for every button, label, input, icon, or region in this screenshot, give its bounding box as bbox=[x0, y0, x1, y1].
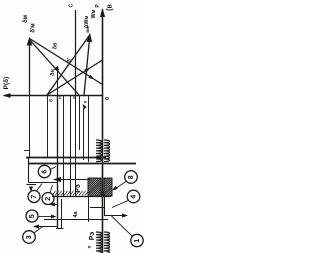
wire: projection line x47 bbox=[47, 95, 49, 157]
leader of part 8 bbox=[114, 182, 126, 190]
svg-text:4: 4 bbox=[130, 195, 137, 199]
arrowhead of part5 leader bbox=[51, 215, 57, 219]
wire: projection line x63 bbox=[63, 95, 65, 196]
circled part number 8 bbox=[125, 171, 138, 184]
leader of part 1 bbox=[111, 216, 132, 237]
svg-text:8: 8 bbox=[128, 175, 135, 179]
leader of part 7 bbox=[37, 184, 43, 192]
svg-text:0: 0 bbox=[105, 97, 111, 100]
coil winding upper right bbox=[104, 140, 110, 162]
circled part number 5 bbox=[26, 210, 38, 222]
svg-text:δ': δ' bbox=[67, 57, 73, 62]
svg-text:Рэ: Рэ bbox=[89, 232, 96, 241]
pole face line H2b bbox=[29, 163, 137, 165]
wire: ordinate line V5 bbox=[57, 67, 59, 95]
hatched pad left of core bbox=[88, 178, 101, 196]
wire: ordinate axis (horizontal line with left arrow) bbox=[4, 95, 103, 97]
leader of part 3 bbox=[34, 227, 43, 234]
arrow A2 head bbox=[50, 203, 56, 207]
force arrow Pe line bbox=[54, 179, 90, 181]
arrowhead of part8 leader bbox=[112, 186, 118, 191]
circled part number 1 bbox=[131, 234, 143, 246]
arrowhead on L1 bbox=[54, 67, 59, 72]
svg-text:δм: δм bbox=[23, 14, 29, 23]
svg-text:Р(δ): Р(δ) bbox=[3, 77, 10, 90]
down arrow below foot bbox=[29, 187, 33, 193]
svg-text:вм: вм bbox=[86, 26, 91, 33]
curve L3: steep line under T2 arrow bbox=[84, 35, 90, 96]
svg-text:δв: δв bbox=[52, 42, 58, 49]
svg-text:о: о bbox=[87, 245, 92, 248]
svg-text:5: 5 bbox=[29, 214, 36, 218]
leader of part 6 bbox=[50, 167, 57, 171]
arrowhead right on y215 bbox=[122, 213, 128, 217]
curve L1: ray from V2 tip to axis bbox=[30, 40, 80, 96]
arrowhead of V2 bbox=[27, 37, 33, 46]
svg-text:2: 2 bbox=[45, 197, 52, 201]
svg-text:б: б bbox=[48, 99, 54, 102]
wire: V3 continuation below axis bbox=[75, 95, 77, 196]
svg-text:(в: (в bbox=[106, 3, 113, 10]
curve L4: line from axis point to T2 bbox=[47, 35, 90, 96]
wire y207 bbox=[90, 207, 104, 209]
wire: projection line x83 bbox=[83, 108, 85, 160]
svg-text:δ'м: δ'м bbox=[31, 23, 37, 33]
coil winding upper left bbox=[96, 140, 102, 162]
wire: projection line x79 bbox=[79, 95, 81, 150]
wire: ordinate line V2 with arrow (stroke limit) bbox=[29, 40, 31, 95]
arrowhead T2 bbox=[87, 33, 93, 42]
arrow A2 short bbox=[50, 204, 58, 206]
hatched pad right of core bbox=[104, 178, 112, 196]
arrowhead on L2 bbox=[88, 75, 94, 80]
arrowhead of abscissa axis bbox=[100, 8, 105, 17]
coil winding lower right bbox=[104, 232, 110, 253]
arrowhead of V5 bbox=[56, 66, 59, 71]
frame box left wall bbox=[28, 158, 30, 183]
wire: V2 dashed continuation below axis bbox=[29, 95, 31, 157]
svg-text:Wм: Wм bbox=[91, 9, 97, 18]
arrowhead on L6 bbox=[84, 68, 90, 73]
rod x61 bbox=[61, 199, 63, 228]
svg-text:4а: 4а bbox=[73, 211, 79, 218]
wire: projection line x70 bbox=[70, 95, 72, 196]
leader of part 5 with arrow bbox=[38, 216, 53, 218]
circled part number 6 bbox=[38, 165, 50, 177]
svg-text:С: С bbox=[68, 3, 74, 7]
hatch ticks on wall bbox=[52, 191, 89, 196]
wire y215 with right arrow bbox=[104, 215, 126, 217]
wire y226 with left arrow bbox=[34, 226, 58, 228]
rod bottom cap bbox=[56, 228, 64, 230]
dark connector between pads at bottom bbox=[101, 191, 105, 196]
tick near V2 bottom bbox=[24, 150, 30, 152]
circled part number 4 bbox=[127, 190, 140, 203]
wire x88 vertical lower bbox=[88, 196, 90, 222]
arrowhead of ordinate axis bbox=[3, 93, 11, 98]
frame box foot bbox=[27, 184, 37, 186]
svg-text:δн: δн bbox=[50, 69, 56, 76]
small arrowhead at top of x83 line bbox=[83, 104, 87, 109]
circled part number 7 bbox=[28, 191, 40, 203]
svg-text:7: 7 bbox=[31, 195, 38, 199]
circled part number 3 bbox=[23, 231, 36, 244]
svg-text:1: 1 bbox=[134, 239, 141, 243]
wire y219 bbox=[44, 219, 108, 221]
leader of part 2 bbox=[50, 185, 53, 193]
hatched wall base line bbox=[52, 196, 111, 198]
force arrow Pe head bbox=[53, 177, 61, 182]
frame left wall tall x57 bbox=[57, 95, 59, 228]
curve L6: rising line from axis point bbox=[47, 60, 103, 95]
wire: ordinate line V3 (tall thin) bbox=[75, 10, 77, 95]
frame box bottom bbox=[29, 182, 58, 184]
curve L2: ray from V2 tip to abscissa axis line bbox=[30, 39, 103, 85]
armature plate line H2a bbox=[26, 157, 106, 159]
svg-text:3: 3 bbox=[26, 235, 33, 239]
coil winding lower left bbox=[96, 232, 102, 253]
leader of part 4 bbox=[112, 201, 128, 208]
wire: projection line x88 bbox=[88, 95, 90, 162]
wire x104 vertical bbox=[104, 196, 106, 216]
wire: abscissa axis / magnet centerline (vertical long line) bbox=[102, 10, 104, 253]
arrowhead left on y226 bbox=[33, 224, 39, 228]
svg-text:6: 6 bbox=[41, 170, 48, 174]
circled part number 2 bbox=[42, 193, 54, 205]
